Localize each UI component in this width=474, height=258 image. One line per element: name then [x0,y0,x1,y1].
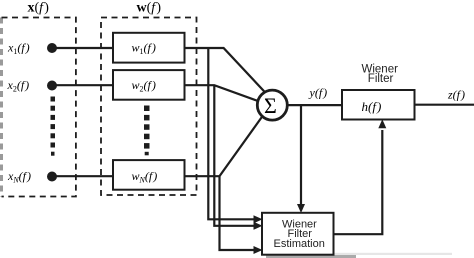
box w1 [113,33,185,63]
svg-text:x(f ): x(f ) [28,1,50,16]
arrow into estimation (mid-left) [254,222,263,230]
dashed box x(f) [2,18,76,197]
wire tap y down to estimation [300,105,302,204]
arrow into estimation (top-left) [254,215,263,223]
node xN (filled circle) [47,172,57,182]
wire x2 input [52,84,113,86]
wire tap from wN down [220,176,255,250]
svg-text:y(f ): y(f ) [309,86,328,100]
dashed box w(f) [101,18,197,196]
box w2 [113,70,185,100]
svg-text:x1(f ): x1(f ) [7,41,30,57]
wire estimation output up to h [334,130,383,234]
wire z(f) output [415,104,474,106]
box h(f) wiener filter [342,90,415,120]
arrow into h box bottom [378,119,386,128]
wire y(f) output of sum [287,104,342,106]
wire xN input [52,175,113,177]
box wN [113,160,185,190]
svg-text:x2(f ): x2(f ) [7,78,30,94]
wire w1 output to sum [185,48,270,97]
wire tap from w2 down [214,85,254,226]
svg-text:Σ: Σ [264,93,277,118]
wire w2 output to sum [185,85,259,101]
wire tap from w1 down [208,48,254,219]
estimation box shadow [266,254,356,258]
node x2 (filled circle) [47,81,57,91]
wire x1 input [52,47,113,49]
ellipsis dots left column [51,97,56,156]
ellipsis dots middle column [144,106,150,156]
svg-text:Filter: Filter [368,73,394,85]
svg-text:xN(f ): xN(f ) [7,169,31,185]
svg-text:w2(f ): w2(f ) [132,78,156,94]
svg-text:w(f ): w(f ) [137,1,162,16]
svg-text:Estimation: Estimation [274,238,325,250]
wire wN output to sum [185,114,265,176]
dashed box x(f) left edge (gray, clipped at image edge) [0,18,3,197]
arrow into estimation (top) [297,204,305,213]
svg-text:h(f ): h(f ) [362,99,382,114]
box wiener filter estimation [262,213,334,255]
summation node (sigma) [257,90,287,120]
svg-text:w1(f ): w1(f ) [132,41,156,57]
svg-text:z(f ): z(f ) [447,88,465,102]
svg-text:wN(f ): wN(f ) [132,169,158,185]
arrow into estimation (bottom-left) [254,246,263,254]
node x1 (filled circle) [47,43,57,53]
